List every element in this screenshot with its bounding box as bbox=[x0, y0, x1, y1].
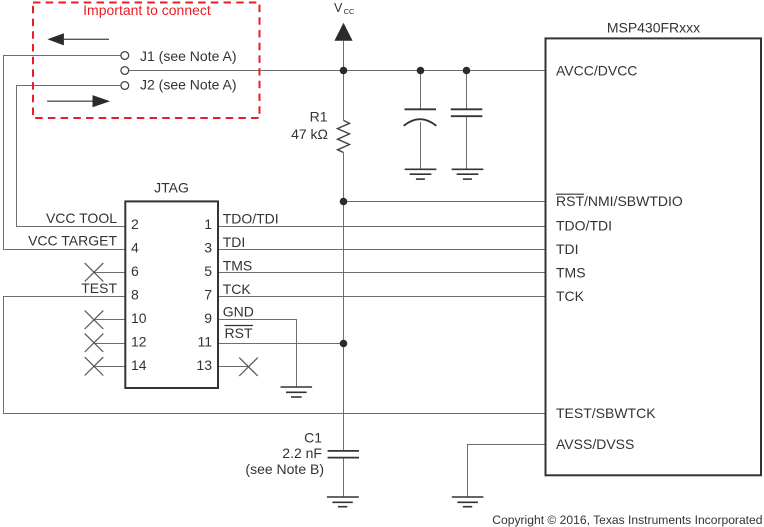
svg-text:11: 11 bbox=[197, 334, 212, 350]
svg-text:(see Note B): (see Note B) bbox=[245, 461, 324, 477]
svg-text:MSP430FRxxx: MSP430FRxxx bbox=[607, 20, 700, 36]
svg-text:TMS: TMS bbox=[223, 258, 253, 274]
svg-text:14: 14 bbox=[131, 357, 147, 373]
svg-text:RST: RST bbox=[225, 325, 253, 341]
svg-text:TMS: TMS bbox=[556, 265, 586, 281]
svg-text:TDI: TDI bbox=[556, 241, 579, 257]
svg-text:J2 (see Note A): J2 (see Note A) bbox=[140, 76, 237, 92]
svg-text:TDO/TDI: TDO/TDI bbox=[556, 218, 612, 234]
svg-text:VCC TOOL: VCC TOOL bbox=[46, 210, 117, 226]
svg-text:8: 8 bbox=[131, 287, 139, 303]
svg-text:R1: R1 bbox=[310, 109, 328, 125]
svg-text:9: 9 bbox=[204, 310, 212, 326]
svg-text:13: 13 bbox=[196, 357, 212, 373]
svg-text:6: 6 bbox=[131, 263, 139, 279]
svg-text:TEST/SBWTCK: TEST/SBWTCK bbox=[556, 405, 656, 421]
svg-text:VCC TARGET: VCC TARGET bbox=[28, 233, 117, 249]
svg-text:47 kΩ: 47 kΩ bbox=[291, 126, 328, 142]
svg-text:C1: C1 bbox=[304, 430, 322, 446]
svg-text:2.2 nF: 2.2 nF bbox=[282, 445, 322, 461]
svg-text:Important to connect: Important to connect bbox=[83, 2, 211, 18]
svg-text:TDI: TDI bbox=[223, 234, 246, 250]
svg-text:TCK: TCK bbox=[223, 281, 252, 297]
svg-text:TDO/TDI: TDO/TDI bbox=[223, 211, 279, 227]
svg-text:12: 12 bbox=[131, 334, 147, 350]
svg-text:Copyright © 2016, Texas Instru: Copyright © 2016, Texas Instruments Inco… bbox=[492, 513, 762, 527]
svg-text:J1 (see Note A): J1 (see Note A) bbox=[140, 48, 237, 64]
svg-text:AVSS/DVSS: AVSS/DVSS bbox=[556, 436, 634, 452]
svg-text:RST/NMI/SBWTDIO: RST/NMI/SBWTDIO bbox=[556, 193, 683, 209]
svg-text:AVCC/DVCC: AVCC/DVCC bbox=[556, 62, 637, 78]
svg-text:2: 2 bbox=[131, 216, 139, 232]
svg-text:1: 1 bbox=[204, 216, 212, 232]
svg-text:5: 5 bbox=[204, 263, 212, 279]
svg-text:TEST: TEST bbox=[81, 280, 117, 296]
svg-text:3: 3 bbox=[204, 240, 212, 256]
svg-text:TCK: TCK bbox=[556, 288, 585, 304]
svg-text:4: 4 bbox=[131, 240, 139, 256]
svg-text:10: 10 bbox=[131, 310, 147, 326]
svg-text:JTAG: JTAG bbox=[154, 180, 189, 196]
svg-text:VCC: VCC bbox=[334, 1, 355, 16]
svg-text:7: 7 bbox=[204, 287, 212, 303]
svg-text:GND: GND bbox=[223, 303, 254, 319]
